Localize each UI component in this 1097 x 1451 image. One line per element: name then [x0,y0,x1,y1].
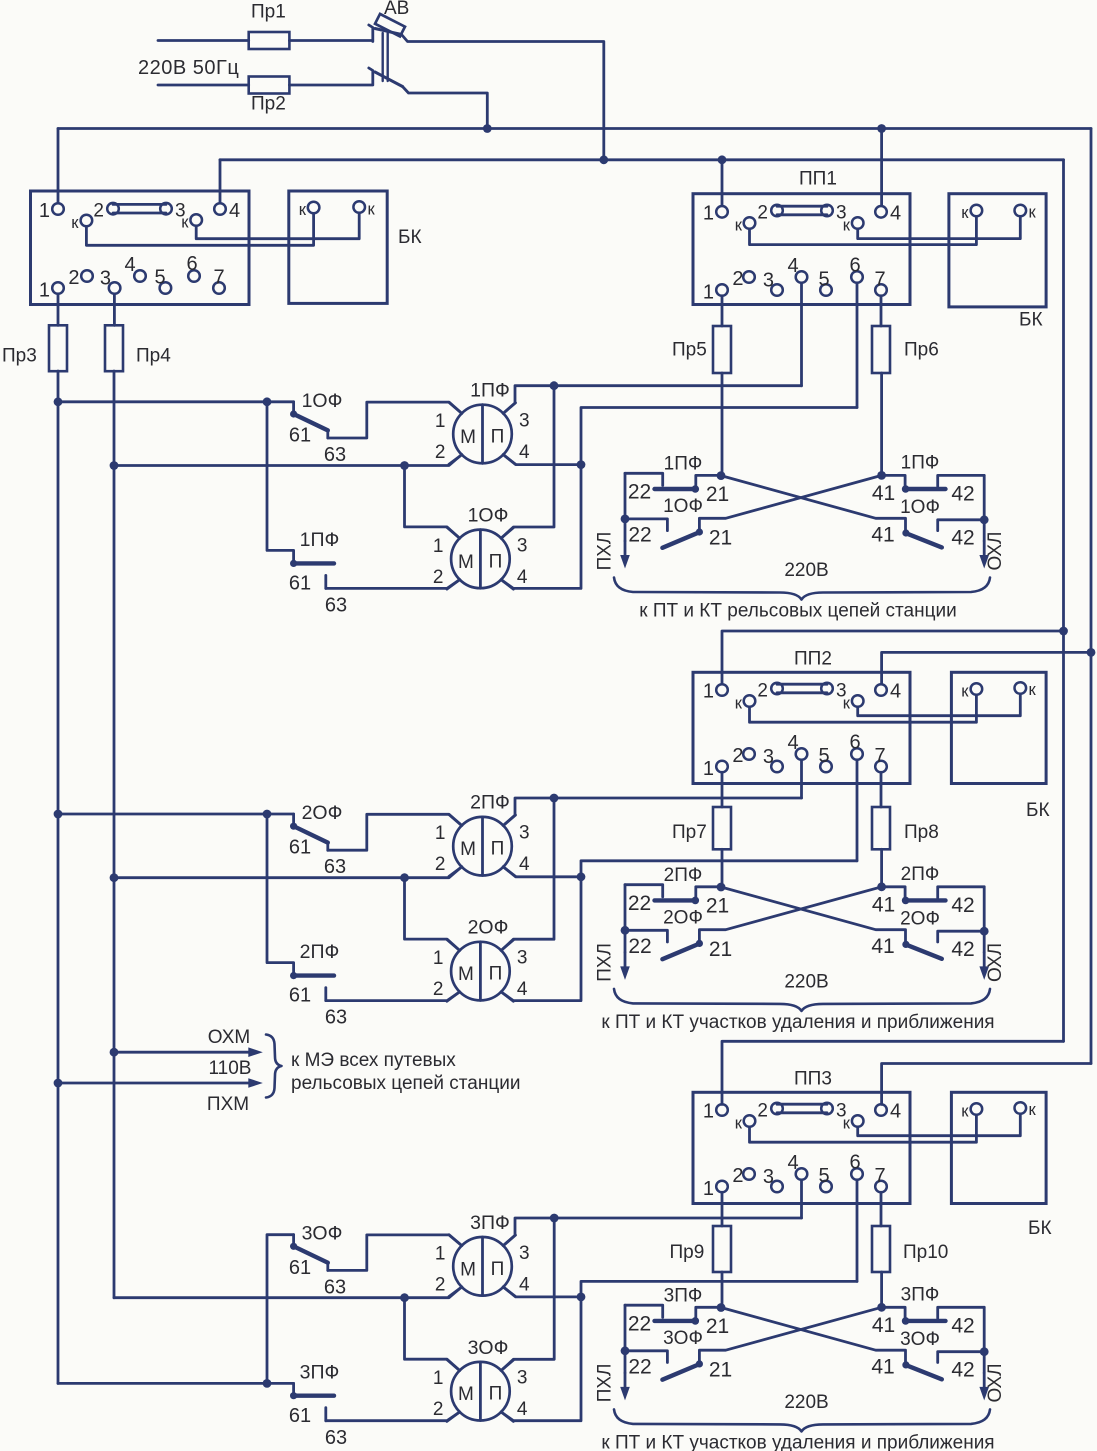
contact 3ПФ 41-42 (right, closed) [882,1307,985,1324]
arrow ПХМ output [58,1078,263,1088]
contact 1ОФ 22-21 (left, open) [625,519,703,548]
wire rail-B to ПП2 t4 [882,652,1091,684]
label 1ОФ above bottom motor [468,505,509,527]
brace МЭ outputs [266,1035,282,1098]
terminal 7 (ПП3 bottom) [874,1165,886,1192]
wire riser to block1 t4 [219,160,222,203]
svg-text:ОХМ: ОХМ [208,1027,250,1048]
label 22 (left lower) [628,1355,651,1378]
terminal 1 (ПП2 bottom) [703,758,728,780]
svg-text:22: 22 [628,1355,651,1378]
svg-text:220В: 220В [784,560,828,581]
junction Пр-right [877,471,886,480]
fuse Пр7 [672,807,731,849]
svg-text:М: М [458,1384,474,1405]
svg-text:5: 5 [818,745,829,767]
circuit breaker АВ (2-pole) [375,14,405,87]
label 220В [784,971,828,992]
terminal к (БК3 right) [1015,1101,1037,1119]
wire 2ОФ feed line [58,813,294,816]
svg-text:7: 7 [874,745,885,767]
svg-text:1: 1 [703,203,714,225]
wire rail-A to ПП2 t1 [722,631,1064,684]
label destination [601,1012,994,1033]
label 63 (s3 top switch) [324,1276,346,1298]
svg-text:1: 1 [433,1368,444,1389]
wire left rail + ПХЛ arrow [620,473,630,568]
label 61 (bottom switch) [289,573,311,595]
wire riser to motor2 pin3 [501,798,554,951]
svg-text:1: 1 [433,948,444,969]
svg-text:Пр3: Пр3 [2,346,37,367]
wire cross diagonal Пр-left to 41 [721,887,910,948]
terminal к (БК3 left) [961,1103,982,1121]
contact 2ОФ 22-21 (left, open) [625,930,703,959]
svg-text:1: 1 [39,200,50,222]
label 3ПФ (left) [664,1285,703,1306]
junction right rail [980,515,989,524]
wire Пр10 to contact 41 [880,1272,883,1307]
svg-text:2: 2 [757,203,768,224]
svg-text:к: к [961,1103,969,1121]
svg-text:2: 2 [435,1274,446,1295]
contact 1ПФ 22-21 (left, closed) [625,473,718,493]
svg-text:к: к [843,695,851,713]
label 42 (right upper) [951,483,974,506]
svg-text:4: 4 [787,1152,798,1174]
terminal 4 (ПП2 bottom) [787,732,807,760]
svg-text:к: к [1029,681,1037,699]
svg-text:к ПТ и КТ участков удаления и: к ПТ и КТ участков удаления и приближени… [601,1432,994,1451]
label 63 (top switch) [324,856,346,878]
svg-text:Пр1: Пр1 [251,2,286,23]
contact 2ОФ 41-42 (right, open) [906,931,984,959]
wire ПП3-t1 to Пр9 [721,1192,724,1226]
terminal 1 (ПП3 bottom) [703,1178,728,1200]
svg-text:21: 21 [706,483,729,506]
svg-text:6: 6 [849,255,860,277]
terminal 5 (ПП1 bottom) [818,269,831,296]
junction right rail [980,927,989,936]
svg-text:к: к [368,201,376,219]
svg-text:42: 42 [951,1358,974,1381]
terminal к2 (left block) [181,214,202,232]
label ПХМ [207,1094,249,1115]
terminal к1 (left block) [71,214,92,232]
motor-relay 3ОФ (М/П) [433,1360,528,1422]
svg-text:ОХЛ: ОХЛ [985,1363,1006,1402]
label 61 (s3 bottom switch) [289,1405,311,1427]
svg-text:2: 2 [433,1399,444,1420]
svg-text:М: М [460,1259,476,1280]
wire right rail + ОХЛ arrow [979,475,989,568]
terminal 2 (left block bottom) [68,267,92,289]
label 2ПФ above top motor [470,792,510,814]
terminal к2 (ПП2) [843,695,864,713]
svg-text:1: 1 [703,282,714,304]
terminal к (БК1 left) [961,204,982,222]
terminal 2 (ПП2 bottom) [732,745,754,767]
svg-text:2: 2 [732,1165,743,1187]
label 21 (left upper) [706,1315,729,1338]
label 1ОФ (top switch) [302,390,343,412]
svg-text:21: 21 [706,894,729,917]
svg-text:61: 61 [289,837,311,859]
switch 2ПФ contact 61-63 (open) [267,814,334,1001]
label 3ОФ (top switch) [302,1222,343,1244]
terminal 6 (left block bottom) [186,253,199,282]
svg-text:ПХМ: ПХМ [207,1094,249,1115]
jumper link 2-3 (ПП2) [757,681,846,702]
svg-text:63: 63 [325,1007,347,1029]
svg-text:61: 61 [289,573,311,595]
junction right rail [980,1347,989,1356]
fuse Пр3 [2,325,67,371]
fuse Пр2 [249,77,290,94]
fuse Пр9 [670,1226,732,1272]
block БК (ПП2) [951,672,1049,821]
svg-text:2ОФ: 2ОФ [468,917,509,939]
svg-text:4: 4 [519,1274,530,1295]
label 41 (right lower) [871,935,894,958]
junction Пр3-rail to 2ОФ line [54,810,63,819]
svg-text:1: 1 [433,536,444,557]
svg-text:Пр4: Пр4 [136,346,171,367]
label 3ОФ (right) [900,1329,940,1350]
svg-text:4: 4 [519,442,530,463]
switch 1ПФ contact 61-63 (open) [267,402,334,589]
svg-text:3ОФ: 3ОФ [468,1337,509,1359]
svg-text:2ПФ: 2ПФ [901,864,940,885]
terminal 3 (ПП3 bottom) [763,1166,783,1192]
terminal к1 (ПП3) [735,1115,756,1133]
junction rail B [1087,648,1096,657]
label 21 (left lower) [709,1358,732,1381]
terminal 4 (left block top) [214,200,240,222]
svg-text:1ПФ: 1ПФ [470,380,510,402]
svg-text:к: к [961,683,969,701]
junction Пр4-rail to line2 [110,461,119,470]
label 2ОФ (right) [900,908,940,929]
junction pole1-bus [599,155,608,164]
svg-text:БК: БК [1028,1218,1052,1239]
svg-text:4: 4 [229,200,240,222]
junction on phase-B line [400,873,409,882]
contact 3ОФ 22-21 (left, open) [625,1351,703,1380]
label к МЭ line2 [291,1073,520,1094]
label 2ПФ (bottom switch) [300,941,340,963]
block ПП2 [693,649,910,784]
wire cross diagonal Пр-left to 41 [721,476,910,537]
wire bus line N1 (y=128) [58,127,1091,130]
label 2ОФ (left) [663,907,703,928]
svg-text:42: 42 [951,938,974,961]
jumper link 2-3 (ПП1) [757,203,846,224]
block БК (ПП1) [949,194,1046,331]
junction on phase-B line [400,461,409,470]
fuse Пр8 [872,807,939,849]
junction left rail [621,1346,630,1355]
wire ПП1 к1 to БК [750,217,977,245]
terminal 6 (ПП1 bottom) [849,255,862,283]
svg-text:63: 63 [325,595,347,617]
label 1ПФ (bottom switch) [300,529,340,551]
label 42 (right upper) [951,894,974,917]
svg-text:22: 22 [628,481,651,504]
label 41 (right lower) [871,1355,894,1378]
wire ПП3 к1 to БК [750,1116,977,1143]
terminal 1 (left block bottom) [39,280,64,302]
svg-text:21: 21 [709,938,732,961]
svg-text:4: 4 [517,567,528,588]
svg-text:3: 3 [517,1368,528,1389]
svg-text:2: 2 [732,268,743,290]
label 42 (right lower) [951,1358,974,1381]
svg-text:1: 1 [703,1101,714,1123]
svg-text:4: 4 [517,979,528,1000]
svg-text:2: 2 [433,979,444,1000]
label 42 (right lower) [951,938,974,961]
svg-text:3ОФ: 3ОФ [663,1328,703,1349]
svg-text:к ПТ и КТ рельсовых цепей стан: к ПТ и КТ рельсовых цепей станции [639,601,956,622]
wire rail-B to ПП3 t4 [882,1064,1091,1105]
svg-text:к: к [299,201,307,219]
wire phase-B line to motor1 pin2 (s3) [114,1287,462,1298]
label 41 (right upper) [872,1314,895,1337]
wire left-block t3 to Пр4 [113,294,116,325]
junction ПХМ tap [54,1079,63,1088]
label 1ОФ (right) [900,497,940,518]
svg-text:к: к [843,217,851,235]
svg-text:2ПФ: 2ПФ [300,941,340,963]
terminal 2 (ПП1 bottom) [732,268,754,290]
junction t4-line [550,794,559,803]
svg-text:1ОФ: 1ОФ [900,497,940,518]
contact 1ПФ 41-42 (right, closed) [882,475,985,492]
label 3ОФ above bottom motor [468,1337,509,1359]
wire phase-2 lead-in [158,84,249,87]
svg-text:к: к [71,214,79,232]
junction rail A [1059,627,1068,636]
svg-text:к: к [735,695,743,713]
junction motor1-pin4 [577,460,586,469]
svg-text:2ОФ: 2ОФ [663,907,703,928]
motor-relay 1ПФ (М/П) [435,402,530,464]
svg-text:1ПФ: 1ПФ [300,529,340,551]
svg-text:220В: 220В [784,1392,828,1413]
block ПП3 [693,1069,910,1204]
svg-text:7: 7 [213,267,224,289]
svg-text:3: 3 [517,948,528,969]
svg-text:6: 6 [849,732,860,754]
wire 3ОФ 63 to motor1 pin1 [328,1235,462,1271]
svg-text:4: 4 [519,854,530,875]
terminal к (left БК right) [353,201,375,219]
svg-text:П: П [491,1259,505,1280]
svg-text:1ОФ: 1ОФ [302,390,343,412]
svg-text:3: 3 [100,268,111,290]
junction Пр4-rail to line2 (s2) [110,873,119,882]
svg-text:220В: 220В [784,971,828,992]
svg-text:61: 61 [289,425,311,447]
wire ПП2-t6 riser [856,760,859,861]
motor-relay 2ОФ (М/П) [433,940,528,1002]
terminal к (БК2 left) [961,683,982,701]
junction switch column [263,810,272,819]
label 63 (bottom switch) [325,1007,347,1029]
svg-text:М: М [460,839,476,860]
wire Пр8 to contact 41 [880,849,883,887]
terminal 4 (ПП1 bottom) [787,255,807,283]
terminal 7 (left block bottom) [213,267,225,294]
wire Пр4-rail [113,371,116,1298]
svg-text:3ПФ: 3ПФ [470,1212,510,1234]
junction Пр-left [717,883,726,892]
svg-text:2: 2 [757,681,768,702]
wire riser to ПП1 t1 [721,160,724,206]
svg-text:рельсовых цепей станции: рельсовых цепей станции [291,1073,520,1094]
svg-text:3: 3 [519,823,530,844]
jumper link 2-3 (ПП3) [757,1101,846,1122]
wire right rail + ОХЛ arrow [979,887,989,980]
junction left rail [621,515,630,524]
label 21 (left lower) [709,527,732,550]
svg-text:2: 2 [435,442,446,463]
wire motor1 pin4 lead [503,455,581,465]
svg-text:Пр7: Пр7 [672,822,707,843]
terminal 5 (ПП2 bottom) [818,745,831,772]
svg-text:к: к [735,217,743,235]
junction Пр-right [877,882,886,891]
junction t4-line [550,1214,559,1223]
wire cross diagonal Пр-right to 21 [699,1307,881,1362]
label 2ОФ (top switch) [302,802,343,824]
label ОХЛ [985,943,1006,982]
svg-text:22: 22 [628,524,651,547]
svg-text:42: 42 [951,894,974,917]
label ПХЛ [595,943,616,982]
wire phase-B line to motor1 pin2 [114,867,462,878]
label 61 (s3 top switch) [289,1257,311,1279]
svg-text:М: М [458,552,474,573]
svg-text:3: 3 [517,535,528,556]
svg-text:БК: БК [1026,800,1050,821]
svg-text:3: 3 [519,1243,530,1264]
terminal 6 (ПП3 bottom) [849,1152,862,1180]
wire motor1 pin4 lead [503,867,581,877]
terminal к (БК2 right) [1015,681,1037,699]
wire Пр6 to contact 41 [880,373,883,475]
wire ПП t6 to motors pin4 [501,861,857,1001]
svg-text:ПП3: ПП3 [794,1069,832,1090]
svg-text:22: 22 [628,935,651,958]
label 2ОФ above bottom motor [468,917,509,939]
svg-text:22: 22 [628,1312,651,1335]
svg-text:21: 21 [706,1315,729,1338]
wire ПП2 к2 to БК [858,695,1021,716]
svg-text:41: 41 [872,1314,895,1337]
wire riser to motor2 pin1 (s3) [405,1298,460,1371]
wire ПП1-t7 to Пр6 [880,296,883,326]
wire motor1 pin4 lead [503,1287,581,1297]
wire left rail + ПХЛ arrow [620,1305,630,1400]
switch 3ПФ contact 61-63 (open) [290,1383,334,1420]
block БК (ПП3) [951,1092,1051,1239]
label 22 (left upper) [628,892,651,915]
svg-text:4: 4 [124,254,135,276]
svg-text:П: П [489,1384,503,1405]
wire cross diagonal Пр-left to 41 [721,1308,910,1369]
motor-relay 3ПФ (М/П) [435,1235,530,1297]
svg-text:1ОФ: 1ОФ [468,505,509,527]
terminal 5 (left block bottom) [154,267,171,294]
label 220В [784,1392,828,1413]
wire left-block к2 to БК [196,213,359,239]
svg-text:1: 1 [703,681,714,703]
wire Пр5 to contact 21 [721,373,724,476]
brace 220В outputs [614,989,990,1011]
svg-text:БК: БК [398,227,422,248]
svg-text:ПХЛ: ПХЛ [595,1363,616,1402]
svg-text:41: 41 [871,1355,894,1378]
svg-text:2: 2 [435,854,446,875]
wire breaker pole1 output [402,35,604,160]
contact 2ПФ 22-21 (left, closed) [625,885,718,905]
svg-text:1: 1 [435,823,446,844]
label 22 (left upper) [628,481,651,504]
junction ПП1-t1 feed [718,155,727,164]
svg-text:АВ: АВ [384,0,409,19]
fuse Пр4 [105,325,171,371]
svg-text:6: 6 [186,253,197,275]
svg-text:5: 5 [818,1165,829,1187]
svg-text:1: 1 [39,280,50,302]
svg-text:6: 6 [849,1152,860,1174]
terminal 1 (left block top) [39,200,64,222]
contact 2ПФ 41-42 (right, closed) [882,887,985,904]
label 110В [209,1058,252,1079]
junction 3-section column [263,1379,272,1388]
terminal 3 (left block bottom) [100,268,121,294]
wire Пр3-rail [57,371,60,1383]
label ПХЛ [595,1363,616,1402]
block БК (left) [289,191,422,303]
wire cross diagonal Пр-right to 21 [699,887,881,942]
svg-text:Пр8: Пр8 [904,822,939,843]
svg-text:к МЭ всех путевых: к МЭ всех путевых [291,1050,456,1071]
brace 220В outputs [614,1409,990,1431]
wire ПП t6 to motors pin4 [501,1281,857,1420]
fuse Пр10 [872,1226,948,1272]
contact 3ОФ 41-42 (right, open) [906,1352,984,1380]
label 21 (left lower) [709,938,732,961]
svg-text:ПП1: ПП1 [799,169,837,190]
svg-text:1: 1 [435,1243,446,1264]
label 42 (right lower) [951,527,974,550]
terminal к2 (ПП1) [843,217,864,235]
svg-text:Пр5: Пр5 [672,340,707,361]
svg-text:3ОФ: 3ОФ [302,1222,343,1244]
svg-text:ОХЛ: ОХЛ [985,531,1006,570]
svg-text:110В: 110В [209,1058,252,1079]
terminal 6 (ПП2 bottom) [849,732,862,760]
label 21 (left upper) [706,894,729,917]
label 61 (top switch) [289,837,311,859]
terminal 1 (ПП1 top) [703,203,728,225]
wire ПП t4 to motors pin3 [503,798,801,826]
wire rail-A to ПП3 t1 [722,1041,1064,1104]
wire left rail + ПХЛ arrow [620,885,630,980]
